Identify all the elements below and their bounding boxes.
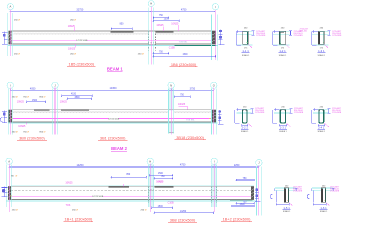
dimension 2250 <box>214 164 260 168</box>
svg-text:Ø: Ø <box>16 210 18 212</box>
extra bar right <box>175 44 216 46</box>
leader line <box>177 25 179 31</box>
cyan marker line <box>168 89 170 134</box>
cyan marker line <box>215 89 217 135</box>
cyan marker line <box>153 8 155 65</box>
stirrup <box>242 110 247 123</box>
column at N <box>169 110 174 133</box>
svg-text:SCALE 1: SCALE 1 <box>318 130 325 133</box>
cyan marker line <box>210 164 212 207</box>
svg-text:3B0 (230x500): 3B0 (230x500) <box>19 135 45 140</box>
soffit line <box>8 44 218 46</box>
svg-text:Ø: Ø <box>142 54 144 56</box>
svg-text:2Y25-05B'B: 2Y25-05B'B <box>294 35 304 37</box>
dimension 1500 <box>149 173 173 176</box>
svg-text:14250: 14250 <box>180 211 187 213</box>
dimension 1500 <box>231 204 254 207</box>
support marker <box>2 32 7 45</box>
svg-text:BEAM 2: BEAM 2 <box>111 146 127 151</box>
beam 1 right end block <box>211 31 216 44</box>
beam 2 top bar b <box>61 109 89 111</box>
cyan marker line <box>7 89 9 135</box>
dimension 1500 <box>153 19 180 23</box>
stirrup <box>322 189 325 202</box>
left dim bracket <box>273 30 279 45</box>
grid line J2 <box>54 88 56 135</box>
grid bubble N <box>168 82 174 88</box>
grid bubble H <box>148 1 154 7</box>
dimension 4750 <box>151 9 216 13</box>
dimension 32750 <box>10 8 152 12</box>
svg-text:2250: 2250 <box>234 164 240 167</box>
grid line A3 <box>8 163 10 212</box>
reinforcement notes <box>255 108 265 114</box>
column at H <box>148 31 155 51</box>
cyan marker line <box>173 89 175 134</box>
cyan marker line <box>56 89 58 135</box>
cut symbol <box>325 123 329 127</box>
section 2-2 top edge <box>243 109 247 111</box>
svg-text:4150: 4150 <box>71 94 77 96</box>
cut symbol <box>326 203 329 206</box>
section title 2-4 <box>317 125 325 129</box>
svg-text:Ø: Ø <box>27 96 29 98</box>
dimension 750 <box>236 178 255 181</box>
stirrup <box>246 32 249 44</box>
dimension 14250 <box>9 164 152 168</box>
svg-text:H: H <box>150 2 152 6</box>
dimension 750 <box>236 201 255 204</box>
beam mark 3B8 (230x500) <box>168 217 197 222</box>
datum arc <box>0 118 2 122</box>
svg-text:4750: 4750 <box>180 164 186 167</box>
svg-text:4750: 4750 <box>181 9 187 12</box>
svg-text:Ø: Ø <box>27 131 29 133</box>
svg-text:Ø: Ø <box>16 176 18 178</box>
dimension 750 <box>153 15 169 19</box>
beam 3 centre line <box>11 189 251 191</box>
dimension 1500 <box>26 100 46 103</box>
svg-text:SCALE 1: SCALE 1 <box>283 210 290 213</box>
beam 1 left end block <box>9 31 12 44</box>
rebar text <box>108 117 120 120</box>
cyan marker line <box>216 164 218 207</box>
stirrup <box>280 110 285 123</box>
svg-text:Ø: Ø <box>74 54 76 56</box>
svg-text:Ø: Ø <box>18 20 20 22</box>
grid bubble J <box>256 159 262 165</box>
support marker <box>2 110 7 123</box>
reinforcement notes <box>256 31 266 37</box>
stirrup <box>319 32 323 44</box>
dimension 1500 <box>151 206 173 209</box>
bottom dim <box>279 124 286 126</box>
beam 1 slab hatching <box>14 32 212 35</box>
bar end mark <box>11 196 12 197</box>
grid bubble O <box>211 82 217 88</box>
section 2-3 slab lines <box>274 109 290 113</box>
left dim bracket <box>270 189 289 206</box>
cyan marker line <box>6 164 8 207</box>
svg-text:10N25: 10N25 <box>68 25 76 28</box>
grid bubble I <box>211 158 217 164</box>
svg-text:10N25: 10N25 <box>18 125 26 128</box>
annotation text <box>138 54 144 56</box>
bar end mark <box>209 117 210 120</box>
beam 3 top bar a <box>109 186 129 188</box>
svg-text:C10B: C10B <box>168 202 174 205</box>
section 1-2 outline <box>279 31 285 44</box>
grid line I3 <box>213 163 215 212</box>
left dim bracket <box>273 108 280 123</box>
depth dim <box>252 31 255 36</box>
beam 1 top edge <box>9 30 216 32</box>
section title 2-2 <box>241 125 249 129</box>
reinforcement notes <box>330 186 340 192</box>
beam 2 bottom rebar <box>12 118 211 120</box>
bottom dim <box>318 124 325 126</box>
svg-text:A: A <box>10 5 12 9</box>
svg-text:1-5 1: 1-5 1 <box>283 206 290 210</box>
svg-text:H: H <box>149 159 151 163</box>
grid line H3 <box>150 163 152 212</box>
svg-text:2Y25-05B'B: 2Y25-05B'B <box>294 112 304 114</box>
dimension 850 <box>111 23 133 30</box>
grid bubble J <box>52 82 58 88</box>
cut symbol <box>286 44 290 48</box>
corner marks <box>280 109 286 111</box>
grid bubble I <box>7 82 13 88</box>
cut symbol <box>289 203 292 206</box>
beam 1 bottom rebar <box>12 39 212 41</box>
dimension 1500 <box>153 54 217 58</box>
svg-text:N: N <box>170 83 172 87</box>
cut symbol <box>325 44 329 48</box>
section 1-6 outline <box>321 188 326 203</box>
cyan marker line <box>12 13 14 56</box>
extra bar right <box>230 200 252 202</box>
svg-text:10N25: 10N25 <box>156 181 164 184</box>
beam mark 1B5 (230x500) <box>67 61 95 66</box>
beam 2 left end block <box>9 110 13 122</box>
svg-text:Ø: Ø <box>145 210 147 212</box>
section 2-4 slab lines <box>313 109 329 113</box>
beam 3 bottom rebar <box>11 195 251 197</box>
leader line <box>74 44 76 47</box>
svg-text:Ø: Ø <box>18 54 20 56</box>
support marker <box>2 186 8 197</box>
dim leader <box>123 184 125 186</box>
beam 2 top bar a <box>34 109 49 111</box>
beam mark 3B1 (230x500) <box>98 135 127 140</box>
bar end mark <box>11 117 12 120</box>
dimension 750 <box>153 51 169 54</box>
support marker <box>219 30 225 46</box>
svg-text:Ø: Ø <box>74 20 76 22</box>
svg-text:TOS: TOS <box>66 205 71 207</box>
title BEAM 2 <box>111 146 127 151</box>
beam 1 top bar left <box>111 31 134 33</box>
stirrup <box>280 32 284 44</box>
support marker <box>255 188 261 202</box>
svg-text:Ø: Ø <box>16 96 18 98</box>
section 2-3 top edge <box>281 109 286 111</box>
rebar text <box>92 195 104 198</box>
section title 1-3 <box>317 49 325 53</box>
support marker <box>218 110 224 124</box>
annotation text <box>14 54 20 56</box>
corner marks <box>242 109 247 111</box>
annotation text <box>70 20 76 22</box>
grid bubble I <box>212 3 218 9</box>
svg-text:10450: 10450 <box>110 87 118 90</box>
left dim bracket <box>235 108 242 123</box>
svg-text:10N25: 10N25 <box>60 100 68 103</box>
cyan marker line <box>148 8 150 65</box>
column band H <box>148 164 154 207</box>
depth dim <box>327 109 330 113</box>
annotation text <box>39 131 45 133</box>
beam mark 3B0 (230x500) <box>17 135 47 140</box>
svg-text:1B+1 (230x600): 1B+1 (230x600) <box>65 217 93 222</box>
cyan marker line <box>211 15 213 61</box>
beam mark 1B6 (230x500) <box>170 62 198 67</box>
cyan marker line <box>153 164 155 207</box>
svg-text:TOS SSL: TOS SSL <box>179 42 188 44</box>
section 2-4 top edge <box>319 109 323 111</box>
svg-text:14Y25 500B: 14Y25 500B <box>92 196 104 198</box>
cyan marker line <box>256 166 258 215</box>
section 1-5 outline <box>284 188 288 203</box>
left dim bracket <box>307 189 326 206</box>
dimension 4150 <box>61 94 93 97</box>
svg-text:10N25: 10N25 <box>65 182 73 185</box>
svg-text:Ø: Ø <box>76 210 78 212</box>
beam 3 top edge <box>8 185 254 187</box>
svg-text:Ø: Ø <box>44 131 46 133</box>
annotation text <box>11 176 17 178</box>
svg-text:SCALE 1: SCALE 1 <box>279 130 286 133</box>
cyan marker line <box>11 89 13 135</box>
title BEAM 1 <box>107 66 123 71</box>
grid line O2 <box>213 88 215 135</box>
svg-text:1500: 1500 <box>32 100 38 102</box>
section 1-3 slab lines <box>312 32 329 45</box>
rebar label 10N25 <box>178 103 187 110</box>
depth dim <box>332 188 335 191</box>
beam 1 top bar right <box>155 31 173 33</box>
svg-text:2Y25-05B'B: 2Y25-05B'B <box>255 112 265 114</box>
dimension 14250 <box>154 211 215 214</box>
rebar text <box>76 39 88 43</box>
section title 1-2 <box>279 49 287 53</box>
svg-text:3B18 (230x500): 3B18 (230x500) <box>176 135 204 140</box>
column hatch ticks <box>149 189 154 191</box>
svg-text:SCALE 1: SCALE 1 <box>241 130 248 133</box>
dimension 10450 <box>55 87 172 91</box>
annotation text <box>23 96 29 98</box>
depth dim <box>289 31 292 36</box>
dimension 3800 <box>67 97 93 100</box>
svg-text:BEAM 1: BEAM 1 <box>107 66 123 71</box>
section 1-1 outline <box>243 31 248 44</box>
svg-text:3800: 3800 <box>74 97 80 99</box>
beam mark 1B+2 (230x600) <box>221 217 252 222</box>
beam mark 3B18 (230x500) <box>174 135 205 140</box>
beam 1 bottom edge <box>9 43 216 45</box>
svg-text:2Y25-05B'B: 2Y25-05B'B <box>330 191 340 193</box>
annotation text <box>70 54 76 56</box>
svg-text:3B1 (230x500): 3B1 (230x500) <box>100 135 126 140</box>
beam 3 bottom edge <box>8 199 254 201</box>
beam 3 top bar b <box>154 186 173 188</box>
bottom dim <box>242 124 248 126</box>
svg-text:10N25: 10N25 <box>178 103 186 106</box>
svg-text:10N25: 10N25 <box>17 100 25 103</box>
annotation text <box>39 96 45 98</box>
svg-text:1500: 1500 <box>158 206 164 208</box>
cyan marker line <box>211 89 213 135</box>
cyan marker line <box>217 15 219 61</box>
left dim bracket <box>311 108 318 123</box>
annotation text <box>141 210 147 212</box>
svg-text:Ø: Ø <box>16 131 18 133</box>
svg-text:1500: 1500 <box>158 173 164 175</box>
column hatch ticks <box>149 42 155 44</box>
cut symbol <box>248 123 252 127</box>
svg-text:2-2 1: 2-2 1 <box>241 125 248 129</box>
svg-text:O: O <box>213 83 215 87</box>
column band I <box>211 164 217 207</box>
svg-text:32750: 32750 <box>76 8 84 11</box>
svg-text:3B8 (230x500): 3B8 (230x500) <box>170 217 196 222</box>
svg-text:2-4 1: 2-4 1 <box>318 125 325 129</box>
svg-text:TOS SSL: TOS SSL <box>186 120 195 122</box>
cyan marker line <box>10 164 12 207</box>
svg-text:3750: 3750 <box>190 87 196 90</box>
stirrup <box>319 110 324 123</box>
left dim bracket <box>236 30 242 45</box>
stirrup <box>285 189 288 202</box>
annotation text <box>23 131 29 133</box>
svg-text:Ø: Ø <box>44 96 46 98</box>
svg-text:1-1 1: 1-1 1 <box>242 49 249 53</box>
svg-text:2Y25-05B'B: 2Y25-05B'B <box>293 191 303 193</box>
section title 1-1 <box>242 49 250 53</box>
annotation text <box>72 210 78 212</box>
svg-text:1500: 1500 <box>239 204 245 206</box>
svg-text:14Y25 500B: 14Y25 500B <box>108 119 120 121</box>
beam mark 1B+1 (230x600) <box>64 217 93 222</box>
grid line I1 <box>214 10 216 60</box>
dimension 3750 <box>171 87 215 91</box>
corner marks <box>319 109 324 111</box>
leader line <box>26 122 28 124</box>
svg-text:1B6 (230x500): 1B6 (230x500) <box>171 62 197 67</box>
grid bubble A <box>7 4 13 10</box>
svg-text:1B5 (230x500): 1B5 (230x500) <box>69 61 95 66</box>
grid bubble A <box>6 158 12 164</box>
svg-text:2Y25-05B'B: 2Y25-05B'B <box>332 35 342 37</box>
dimension 750 <box>154 176 174 179</box>
annotation text <box>12 210 18 212</box>
cyan marker line <box>260 166 262 215</box>
svg-text:SCALE 1: SCALE 1 <box>320 210 327 213</box>
grid line I2 <box>9 88 11 135</box>
cut symbol <box>249 44 253 48</box>
reinforcement notes <box>332 108 342 114</box>
beam 2 top edge <box>9 109 216 111</box>
svg-text:SCALE 1: SCALE 1 <box>242 54 249 57</box>
annotation text <box>14 20 20 22</box>
beam 3 right end block <box>251 186 254 199</box>
depth dim <box>295 188 298 191</box>
beam 2 slab hatching <box>12 111 211 114</box>
reinforcement notes <box>300 29 309 33</box>
cut symbol <box>286 123 290 127</box>
beam 2 bottom edge <box>9 121 216 123</box>
beam 2 right end block <box>212 110 216 122</box>
annotation text <box>12 131 18 133</box>
svg-text:4050: 4050 <box>30 87 36 90</box>
reinforcement notes <box>294 31 304 37</box>
dimension 4750 <box>150 164 215 169</box>
leader line <box>163 27 165 31</box>
left dim bracket <box>312 30 318 45</box>
svg-text:14Y25 500B: 14Y25 500B <box>76 40 88 42</box>
grid line A1 <box>9 10 11 56</box>
svg-text:2-3 1: 2-3 1 <box>280 125 287 129</box>
soffit line <box>8 122 218 124</box>
svg-text:10N25: 10N25 <box>156 24 164 27</box>
depth dim <box>328 31 331 36</box>
section 1-1 slab lines <box>236 32 252 45</box>
slab top line <box>11 184 254 186</box>
section 1-5 slab <box>275 188 296 190</box>
section title 1-5 <box>283 206 291 210</box>
svg-text:SCALE 1: SCALE 1 <box>318 54 325 57</box>
svg-text:1B+2 (230x600): 1B+2 (230x600) <box>223 217 251 222</box>
grid line N2 <box>170 88 172 135</box>
dimension 750 <box>174 94 191 97</box>
svg-text:1-6 1: 1-6 1 <box>320 206 327 210</box>
cyan marker line <box>147 164 149 207</box>
section 1-2 slab lines <box>273 32 290 45</box>
annotation text <box>12 96 18 98</box>
svg-text:C10B: C10B <box>169 46 175 49</box>
dimension 4050 <box>10 87 56 91</box>
grid line H1 <box>150 6 152 64</box>
section 2-2 slab lines <box>236 109 251 113</box>
grid line J3 <box>258 165 260 215</box>
svg-text:2Y25-05B'B: 2Y25-05B'B <box>256 35 266 37</box>
svg-text:1-3 1: 1-3 1 <box>318 49 325 53</box>
section 1-6 slab <box>312 188 333 190</box>
svg-text:1500: 1500 <box>164 19 170 21</box>
dimension 850 <box>111 174 147 178</box>
column at I <box>212 186 217 203</box>
reinforcement notes <box>294 108 304 114</box>
section title 1-6 <box>320 206 328 210</box>
svg-text:SCALE 1: SCALE 1 <box>279 54 286 57</box>
section 1-3 outline <box>318 31 324 44</box>
svg-text:1500: 1500 <box>182 54 188 56</box>
column at H <box>148 186 153 203</box>
svg-text:1-2 1: 1-2 1 <box>279 49 286 53</box>
reinforcement notes <box>332 31 342 37</box>
column band N <box>169 89 174 134</box>
svg-text:14250: 14250 <box>77 164 85 167</box>
